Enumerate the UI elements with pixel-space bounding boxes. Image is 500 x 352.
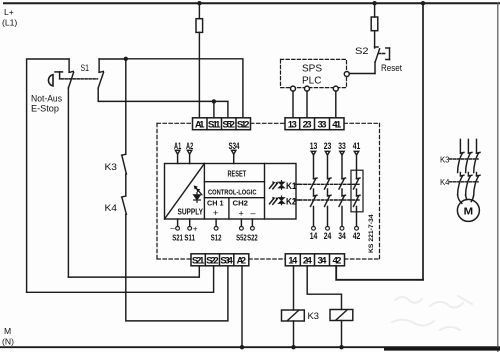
svg-text:(L1): (L1) [2, 18, 17, 28]
svg-text:PLC: PLC [302, 76, 322, 87]
svg-text:33: 33 [318, 120, 327, 131]
module pin S21 [176, 219, 180, 230]
svg-text:K1: K1 [286, 181, 297, 191]
svg-text:(N): (N) [2, 337, 14, 347]
relay module box [165, 164, 297, 220]
relay K2 symbol [270, 196, 285, 205]
contact column 23-24 [324, 140, 332, 241]
svg-text:S21: S21 [172, 234, 183, 243]
svg-text:S22: S22 [247, 234, 258, 243]
svg-text:+: + [239, 209, 244, 219]
svg-text:S34: S34 [229, 141, 240, 151]
svg-text:S1: S1 [81, 63, 90, 73]
svg-text:33: 33 [338, 140, 346, 151]
svg-text:SUPPLY: SUPPLY [178, 208, 204, 217]
e-stop actuator [48, 72, 97, 86]
svg-text:42: 42 [333, 256, 342, 267]
svg-text:–: – [170, 224, 175, 233]
svg-text:E-Stop: E-Stop [31, 104, 59, 114]
terminal strip 13 23 33 41 [285, 118, 344, 130]
svg-text:14: 14 [288, 256, 298, 267]
wire PLC 13 to strip [292, 91, 294, 118]
svg-text:S11: S11 [184, 234, 195, 243]
wire chain to S34 [126, 214, 228, 321]
wire K3K4 chain top [125, 59, 127, 154]
pushbutton S2 [349, 47, 390, 74]
svg-text:SPS: SPS [302, 64, 322, 75]
wire S1 pole1 bottom [67, 88, 69, 277]
svg-text:A1: A1 [174, 141, 181, 151]
fuse F1 [196, 1, 203, 118]
module pin A1 [175, 150, 179, 163]
svg-text:S12: S12 [237, 120, 250, 131]
main contacts K3 [450, 139, 481, 172]
LED indicator in supply [194, 185, 202, 202]
svg-text:23: 23 [303, 120, 312, 131]
relay K1 symbol [270, 181, 285, 190]
right border [497, 3, 499, 352]
supply rail L+ (L1) [4, 2, 500, 4]
wire S22 return [27, 266, 214, 293]
module pin S11 [188, 219, 192, 230]
svg-text:S52: S52 [222, 120, 235, 131]
wire PLC 23 to strip [306, 91, 308, 118]
terminal strip S21 S22 S34 A2 [191, 254, 249, 266]
module pin A2 [187, 150, 191, 163]
svg-text:41: 41 [332, 120, 342, 131]
wire 14 to coil K3 [293, 266, 295, 310]
aux contact K3 [122, 154, 127, 174]
svg-text:L+: L+ [4, 7, 14, 17]
svg-text:24: 24 [303, 256, 313, 267]
wire coil K4 to rail [341, 321, 343, 348]
svg-text:CONTROL-LOGIC: CONTROL-LOGIC [208, 188, 257, 197]
svg-text:–: – [251, 208, 256, 218]
svg-text:KS 221-7-34: KS 221-7-34 [368, 214, 375, 253]
svg-text:CH 1: CH 1 [207, 200, 224, 207]
svg-text:S34: S34 [220, 256, 233, 267]
terminal strip A1 S11 S52 S12 [193, 118, 251, 130]
wire PLC 41 to strip [335, 91, 337, 118]
wire S1 pole2 top [99, 58, 126, 60]
wire S21 return [68, 266, 199, 277]
switch S1 pole 1 [68, 59, 73, 88]
svg-text:S12: S12 [211, 234, 222, 243]
svg-text:K4: K4 [440, 177, 450, 187]
wire S1 pole2 bottom [98, 88, 228, 118]
coil K3 [282, 310, 305, 321]
svg-text:S11: S11 [208, 120, 221, 131]
terminal strip 14 24 34 42 [285, 254, 344, 266]
svg-text:14: 14 [310, 230, 318, 241]
svg-text:K3: K3 [440, 155, 450, 165]
node junction S12 feed [124, 57, 128, 61]
svg-text:A1: A1 [195, 120, 205, 131]
svg-text:K2: K2 [286, 197, 297, 207]
module pin S12 [214, 219, 218, 230]
svg-text:41: 41 [353, 140, 361, 151]
contact column 33-34 [338, 140, 346, 241]
motor M [457, 195, 479, 221]
svg-text:M: M [4, 326, 11, 336]
svg-text:K3: K3 [105, 162, 118, 172]
svg-text:24: 24 [324, 230, 332, 241]
svg-text:13: 13 [310, 140, 318, 151]
svg-text:42: 42 [353, 230, 361, 241]
svg-text:S52: S52 [236, 234, 247, 243]
wire S11 stub [213, 101, 215, 117]
wire coil K3 to rail [293, 321, 295, 347]
wire A2 to rail [241, 266, 243, 347]
module pin S34 [232, 150, 236, 163]
PLC box SPS/PLC [281, 59, 350, 91]
wire 24 to coil K4 [307, 266, 341, 310]
svg-text:M: M [464, 206, 474, 218]
contact column 13-14 [310, 140, 318, 241]
wire 42 to supply bus [336, 266, 423, 280]
switch S1 pole 2 [98, 59, 103, 88]
K1 linkage dashes [295, 183, 300, 185]
svg-text:K3: K3 [308, 311, 320, 321]
wire S1 pole1 top loop [27, 59, 70, 292]
fuse F2 [371, 1, 378, 48]
module pin S22 [251, 219, 255, 230]
watermark [392, 296, 472, 330]
K2 linkage dashes [295, 199, 300, 201]
svg-text:S21: S21 [192, 256, 205, 267]
svg-text:13: 13 [288, 120, 297, 131]
svg-text:23: 23 [324, 140, 332, 151]
node junction S11 [212, 99, 216, 103]
coil K4 [330, 310, 353, 321]
watermark dark bar [384, 348, 500, 351]
main contacts K4 [450, 173, 481, 196]
wire chain mid [125, 174, 127, 196]
contact column 41-42 NC [351, 140, 363, 241]
aux contact K4 [122, 196, 127, 214]
svg-text:S2: S2 [355, 46, 369, 57]
svg-text:A2: A2 [237, 256, 247, 267]
svg-text:S22: S22 [206, 256, 219, 267]
wire to S12 [126, 59, 243, 118]
svg-text:Not-Aus: Not-Aus [31, 94, 62, 104]
svg-text:Reset: Reset [381, 63, 402, 73]
svg-text:K4: K4 [105, 203, 118, 213]
module pin S52 [240, 219, 244, 230]
svg-text:34: 34 [318, 256, 328, 267]
svg-text:34: 34 [338, 230, 346, 241]
safety relay dashed enclosure [157, 123, 380, 259]
svg-text:+: + [193, 224, 198, 233]
svg-text:A2: A2 [186, 141, 193, 151]
svg-text:+: + [213, 208, 218, 218]
svg-text:RESET: RESET [228, 170, 247, 179]
right bus wire [422, 3, 424, 280]
ground rail M (N) [0, 346, 500, 348]
svg-text:CH2: CH2 [233, 200, 249, 207]
